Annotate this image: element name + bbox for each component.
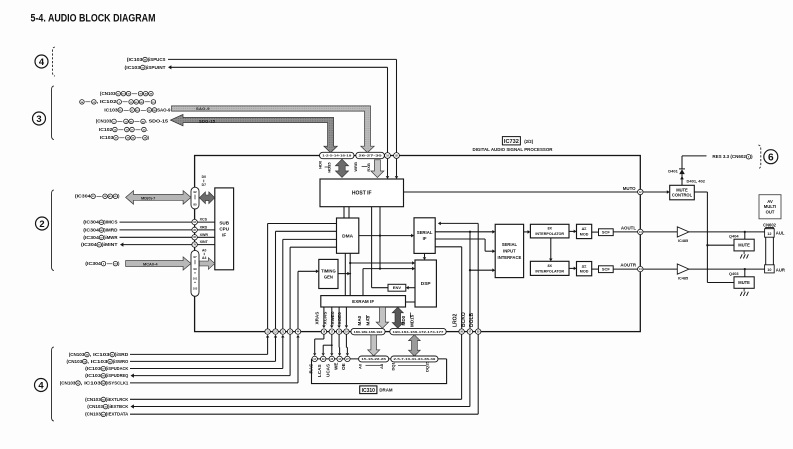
pin 190 (iSPUINT) [385, 153, 391, 159]
svg-text:2: 2 [39, 218, 44, 229]
wire DMA to EXRAM IF [345, 253, 350, 295]
label AOUTR [620, 263, 636, 268]
svg-text:)iEXTDATA: )iEXTDATA [106, 412, 128, 417]
svg-text:MOD: MOD [580, 232, 589, 236]
svg-text:CONTROL: CONTROL [672, 193, 693, 198]
block SUB CPU IF [215, 188, 234, 270]
svg-text:(2/2): (2/2) [524, 139, 534, 144]
pin AOUTL [638, 229, 643, 234]
bus label HD0-HD15 [318, 160, 332, 173]
svg-text:): ) [118, 194, 120, 199]
block SCF (L) [599, 229, 614, 236]
pin iSYSCLK1 (bottom edge) [295, 329, 300, 334]
svg-text:6: 6 [768, 152, 774, 163]
wire iEXTDATA [130, 334, 478, 414]
svg-text:RES 3.3 (CN602: RES 3.3 (CN602 [712, 154, 746, 159]
wire EXRAM IF to XOE0 pin [345, 307, 348, 328]
block ENV [388, 284, 406, 291]
bus arrow MD pill to DRAM data pill (double) [409, 335, 421, 356]
wire LRO2 net to SERIAL INPUT INTERFACE [469, 268, 495, 272]
block TIMING GEN [319, 259, 338, 288]
svg-text:8X: 8X [547, 264, 552, 268]
signal label iMCS [83, 220, 117, 225]
signal label iSYSCLK1 [60, 380, 129, 385]
svg-text:)iSPUDACK: )iSPUDACK [106, 366, 129, 371]
svg-text:XWR: XWR [200, 233, 209, 237]
wire SERIAL IF to DSP [423, 253, 426, 260]
svg-text:BCKO: BCKO [461, 312, 467, 327]
svg-text:(CN103: (CN103 [100, 91, 116, 96]
svg-text:DQ1: DQ1 [390, 362, 395, 371]
wire iMRD [120, 229, 192, 231]
svg-text:(CN103: (CN103 [66, 359, 82, 364]
svg-text:12: 12 [767, 232, 771, 236]
wire DMA to SERIAL IF [359, 234, 414, 238]
block EXRAM IF [321, 296, 406, 307]
svg-text:2-5-7-10-31-34-36-39: 2-5-7-10-31-34-36-39 [394, 357, 436, 361]
bus arrow MA pill to DRAM address pill [368, 335, 380, 356]
svg-text:EXRAM IF: EXRAM IF [352, 299, 374, 304]
signal labels SDO-15 source pins (CN103/IC102/IC103) [96, 119, 169, 140]
svg-text:MD0: MD0 [401, 315, 406, 325]
svg-text:IF: IF [423, 236, 427, 241]
svg-text:XINT: XINT [200, 240, 209, 244]
svg-text:)iSPUINT: )iSPUINT [145, 65, 166, 70]
svg-text:(CN103: (CN103 [87, 404, 103, 409]
label MUTO [623, 186, 636, 191]
svg-text:(IC304: (IC304 [83, 227, 99, 232]
wire iSWRO [130, 335, 277, 362]
svg-text:MCA0-4: MCA0-4 [143, 261, 158, 266]
svg-text:(IC304: (IC304 [85, 261, 101, 266]
svg-text:ΔΣ: ΔΣ [582, 264, 588, 268]
wire MOD R to SCF R [592, 268, 599, 270]
wire iSPUDACK riser to DMA [283, 239, 337, 329]
DRAM pill pins 15-16-22-26 (A bus) [359, 356, 389, 362]
svg-text:)iMRD: )iMRD [104, 227, 117, 232]
pill pins 183-189-188-192 (MA bus) [351, 328, 385, 334]
bus label D0-D7 [202, 175, 206, 187]
svg-text:GEN: GEN [324, 274, 333, 279]
pin iSWRO (bottom edge) [273, 329, 278, 334]
wire EXRAM IF to DSP [406, 301, 416, 303]
signal label iEXTLRCK [85, 397, 129, 402]
svg-text:OE: OE [341, 363, 346, 370]
pin 94 XCS [192, 219, 197, 224]
svg-text:(CN103: (CN103 [85, 412, 101, 417]
pin BCKO [467, 329, 472, 334]
svg-text:IF: IF [222, 233, 226, 238]
wire DMA net to DSP [349, 261, 415, 265]
svg-text:INTERPOLATOR: INTERPOLATOR [535, 269, 564, 273]
svg-text:85: 85 [193, 203, 197, 207]
pin iSPUDACK (bottom edge) [280, 329, 285, 334]
svg-text:101: 101 [193, 276, 198, 280]
bus arrow SAO-9 (to pill 26-27-30) [172, 106, 375, 153]
label IC732 (2/2) DIGITAL AUDIO SIGNAL PROCESSOR [473, 137, 554, 152]
wire iSYSCLK1 riser to TIMING GEN [298, 270, 319, 329]
wire iSYSCLK1 [130, 335, 300, 383]
bus label DQ1-DQ15 (rotated) [390, 361, 429, 372]
connector pin 10 AUR [765, 265, 785, 273]
wire LRO2 tap to SERIAL IF [435, 247, 462, 329]
signal label iMRD [83, 227, 117, 232]
signal label iSWRO [66, 359, 128, 364]
svg-text:UCAS: UCAS [326, 364, 331, 377]
svg-text:): ) [751, 154, 753, 159]
svg-text:(IC103: (IC103 [125, 65, 141, 70]
svg-text:OUT: OUT [766, 209, 775, 214]
pin 95 XRD [192, 227, 197, 232]
signal labels SAO-9 source pins (CN103/IC102/IC103) [80, 91, 171, 112]
svg-text:WRB: WRB [353, 162, 358, 172]
svg-text:MUTE: MUTE [738, 243, 750, 248]
svg-text:(CN103: (CN103 [60, 380, 76, 385]
block 8X INTERPOLATOR (L) [530, 224, 569, 238]
label AOUTL [621, 226, 636, 231]
svg-text:D0: D0 [202, 175, 206, 179]
svg-text:D401: D401 [668, 169, 678, 174]
svg-text:HOST IF: HOST IF [352, 191, 372, 197]
svg-text:D401, 402: D401, 402 [687, 179, 706, 184]
labels XRAS XCAS XWE0 XOE0 (rotated) [315, 311, 343, 324]
wire iMINT with left arrow [120, 242, 192, 246]
wire SERIAL IF to SERIAL INPUT INTERFACE (BCKO net) [435, 230, 495, 329]
svg-text:1-2-5-14-16-19: 1-2-5-14-16-19 [322, 154, 351, 158]
wire TIMING GEN clock out [338, 272, 351, 276]
svg-text:DOLB: DOLB [469, 312, 475, 327]
pin XCAS [329, 329, 334, 334]
wire iSRD riser to DMA [268, 224, 337, 329]
signal label iMINT [81, 242, 118, 247]
pill pins 97-99 101 103 (A0-A4 bus) [191, 250, 199, 296]
wire DOLB tap to SERIAL IF [438, 222, 478, 329]
svg-text:)iMCS: )iMCS [104, 220, 118, 225]
op-amp IC485 (L) [677, 227, 689, 243]
label Q404 [729, 233, 739, 238]
signal label iSPUDACK [85, 366, 129, 371]
svg-text:(IC304: (IC304 [81, 242, 97, 247]
signal label iSRD [69, 352, 129, 357]
bus label A0-A8 (rotated) [358, 363, 384, 369]
svg-text:SAO-9: SAO-9 [157, 107, 171, 112]
bus arrow SDO-15 (from pill 1-2-5-14-16-19) [171, 114, 338, 152]
pin AOUTR [638, 266, 643, 271]
wire HOST IF to DMA [344, 207, 349, 218]
svg-text:, IC103: , IC103 [90, 352, 111, 357]
svg-text:LRO2: LRO2 [453, 313, 459, 327]
signal label iEXTDATA [85, 412, 128, 417]
section marker 2 with brace [36, 190, 55, 271]
wire XCAS to DRAM LCAS/UCAS [322, 334, 334, 356]
svg-text:XCAS: XCAS [323, 312, 328, 325]
block DMA [337, 218, 359, 253]
svg-text:AUL: AUL [776, 231, 785, 236]
wire XRAS to DRAM RAS [313, 334, 324, 356]
svg-text:, IC103: , IC103 [87, 359, 108, 364]
wire SII to 8X INTERPOLATOR L [524, 230, 531, 234]
block HOST IF [320, 179, 404, 207]
ground (Q403) [740, 288, 748, 296]
label RES 3.3 (CN602 5) [712, 154, 753, 159]
wire EXRAM net to DSP [363, 267, 415, 296]
wire XWE0 to DRAM WE [338, 334, 341, 356]
svg-text:A4: A4 [202, 256, 206, 260]
wire HOST IF riser to serial nets [379, 207, 381, 269]
pin XOE0 [344, 329, 349, 334]
svg-text:XRD: XRD [200, 225, 208, 229]
svg-text:)iSYSCLK1: )iSYSCLK1 [106, 380, 129, 385]
svg-text:IC485: IC485 [678, 276, 688, 280]
wire EXRAM IF to XRAS pin [322, 307, 325, 328]
DRAM pill pins 2-5-7-10-31-34-36-39 (DQ bus) [391, 356, 438, 362]
svg-text:SDO-15: SDO-15 [199, 119, 216, 124]
wire amplifier L to CN602 pin 12 [689, 231, 765, 239]
svg-text:(IC304: (IC304 [83, 220, 99, 225]
wire HOST IF to ENV [372, 207, 388, 288]
wire iMWR [120, 236, 192, 238]
signal label iSPUCS (IC103 99) [127, 57, 166, 62]
wire EXRAM IF to XWE0 pin [337, 307, 340, 328]
block AV MULTI OUT [759, 195, 781, 219]
block delta-sigma MOD (R) [577, 262, 592, 276]
svg-text:ΔΣ: ΔΣ [582, 227, 588, 231]
svg-text:103: 103 [193, 286, 198, 290]
svg-text:SCF: SCF [602, 267, 611, 272]
signal label iEXTBCK [87, 404, 129, 409]
pin MUTO [638, 189, 643, 194]
svg-text:A8: A8 [379, 363, 384, 369]
svg-text:Q403: Q403 [729, 271, 739, 276]
wire iSPUCS pin to HOST IF [395, 159, 398, 179]
svg-text:IC310: IC310 [362, 388, 376, 394]
svg-text:IC732: IC732 [504, 139, 519, 145]
svg-text:183-189-188-192: 183-189-188-192 [354, 330, 383, 334]
svg-text:IC103: IC103 [100, 135, 114, 140]
svg-text:IC485: IC485 [678, 239, 688, 243]
block delta-sigma MOD (L) [577, 224, 592, 238]
DRAM pin 27 OE [345, 356, 350, 361]
pin 92 (iSPUCS) [394, 153, 400, 159]
svg-text:IC102: IC102 [99, 127, 113, 132]
svg-text:)iMINT: )iMINT [102, 242, 118, 247]
wire iSPUDACK [130, 335, 284, 369]
bus arrow EXRAM to MD pill (dark double) [392, 307, 403, 328]
bus label A0-A4 [202, 248, 206, 260]
labels RAS LCAS UCAS WE OE (rotated) [308, 363, 346, 377]
svg-text:)iMWR: )iMWR [104, 235, 118, 240]
wire iEXTLRCK [130, 334, 462, 399]
svg-text:4: 4 [39, 56, 45, 67]
svg-text:, IC103: , IC103 [81, 380, 102, 385]
connector CN602 [763, 222, 776, 272]
IC732 digital audio signal processor main box [195, 156, 641, 332]
ground (Q404) [740, 251, 748, 259]
bus label MA0-MA8 (rotated) [357, 315, 370, 326]
svg-text:190-164-166-172-174-177: 190-164-166-172-174-177 [393, 330, 444, 334]
signal label iMWR [83, 235, 118, 240]
svg-text:97: 97 [193, 255, 197, 259]
block SCF (R) [599, 266, 614, 273]
svg-text:WE: WE [333, 363, 338, 370]
pill pins 92-85 (D0-D7 bus) [191, 187, 199, 209]
svg-text:.: . [147, 127, 148, 132]
bus arrow 26-27-30 to HOST IF (light) [371, 160, 384, 178]
svg-text:(IC103: (IC103 [127, 57, 143, 62]
block MUTE CONTROL [670, 185, 695, 200]
wire 8X INTERPOLATOR L to MOD L [569, 230, 577, 233]
bus arrow HD0-HD15 double-headed (dark) [335, 159, 348, 177]
bus arrow EXRAM to MA pill [376, 307, 388, 328]
svg-text:(CN103: (CN103 [85, 397, 101, 402]
svg-text:IC103: IC103 [104, 107, 118, 112]
pin iSRD (bottom edge) [265, 329, 270, 334]
svg-text:92: 92 [193, 190, 197, 194]
wire iSPUCS to DASP pin [168, 59, 397, 152]
wire iMCS [120, 221, 192, 223]
block SERIAL IF [414, 218, 435, 254]
svg-text:DMA: DMA [342, 233, 353, 239]
svg-text:, IC102: , IC102 [96, 99, 117, 104]
svg-text:(IC304: (IC304 [75, 194, 91, 199]
section marker 4 (top) with dashed brace [35, 47, 55, 76]
bus label WRB-RXB [353, 162, 371, 172]
IC310 DRAM outer box [312, 359, 447, 384]
pill pins 1-2-5-14-16-19 (HD bus) [320, 152, 355, 158]
label IC310 DRAM [360, 386, 393, 394]
bus arrow A0-A4 (gray) [199, 258, 214, 270]
wire 8X INTERPOLATOR R to MOD R [569, 267, 577, 270]
svg-text:(CN103: (CN103 [69, 352, 85, 357]
wires pins to SUB CPU IF [197, 222, 215, 245]
wire iSRD [130, 335, 269, 355]
svg-text:SERIAL: SERIAL [502, 242, 518, 247]
label Q403 [729, 271, 739, 276]
svg-text:INTERFACE: INTERFACE [498, 255, 522, 260]
svg-text:A0: A0 [358, 363, 363, 369]
signal label MCA0-4 source pins (IC304) [85, 261, 120, 266]
svg-text:MUTE: MUTE [676, 187, 688, 192]
wire SERIAL IF data to SERIAL INPUT INTERFACE [435, 239, 495, 253]
svg-text:): ) [148, 135, 150, 140]
signal label iSPUDREQ [85, 373, 129, 378]
svg-text:MOD: MOD [580, 270, 589, 274]
svg-text:MUTE: MUTE [738, 280, 750, 285]
block 8X INTERPOLATOR (R) [530, 261, 569, 275]
wire AOUTR to amplifier [643, 268, 677, 270]
svg-text:DQ15: DQ15 [424, 361, 429, 372]
svg-text:)iEXTLRCK: )iEXTLRCK [106, 397, 129, 402]
pin XRAS [321, 329, 326, 334]
transistor Q403 MUTE block [734, 277, 754, 289]
svg-text:AOUTR: AOUTR [620, 263, 636, 268]
svg-text:MD(0)-7: MD(0)-7 [141, 195, 155, 200]
svg-text:XRAS: XRAS [315, 312, 320, 325]
DRAM pin 13 WE [337, 356, 342, 361]
section marker 3 with brace [33, 86, 55, 140]
svg-text:(IC103: (IC103 [85, 373, 101, 378]
svg-text:AUR: AUR [776, 267, 785, 272]
svg-text:ENV: ENV [393, 285, 402, 290]
bus arrow MCA0-4 (gray) [126, 257, 191, 270]
pill pins 190-164-166-172-174-177 (MD bus) [390, 328, 446, 334]
svg-text:XWE0: XWE0 [330, 311, 335, 324]
op-amp IC485 (R) [677, 264, 689, 280]
svg-text:MA0: MA0 [357, 315, 362, 325]
signal label iSPUINT (IC103 90) [125, 65, 166, 70]
transistor Q404 MUTE block [734, 239, 754, 251]
svg-text:D7: D7 [202, 183, 206, 187]
wire ENV to DSP [406, 286, 415, 290]
svg-text:DSP: DSP [421, 281, 432, 287]
svg-text:INPUT: INPUT [503, 248, 516, 253]
svg-text:15-16-22-26: 15-16-22-26 [361, 357, 386, 361]
signal label MD0-7 source pins (IC304) [75, 194, 120, 199]
svg-text:TIMING: TIMING [321, 269, 336, 274]
svg-text:XOE0: XOE0 [337, 312, 342, 325]
svg-text:(CN103: (CN103 [96, 119, 112, 124]
svg-text:8X: 8X [547, 227, 552, 231]
title: 5-4. AUDIO BLOCK DIAGRAM [31, 13, 156, 25]
pin iSPUDREQ (bottom edge) [287, 329, 292, 334]
bus arrow D0-D7 double-headed (dark) [199, 192, 214, 204]
wire iSWRO riser to DMA [276, 231, 337, 329]
bus label MD0-MD15 (rotated) [401, 313, 414, 328]
svg-text:DIGITAL AUDIO SIGNAL PROCESSOR: DIGITAL AUDIO SIGNAL PROCESSOR [473, 147, 554, 152]
svg-text:LCAS: LCAS [317, 364, 322, 377]
wire iEXTBCK with left arrow [131, 334, 470, 408]
svg-text:RAS: RAS [308, 364, 313, 374]
pin 79 XINT [192, 242, 197, 247]
svg-text:)iSPUCS: )iSPUCS [148, 57, 166, 62]
wire iSPUDREQ with left arrow [131, 334, 291, 377]
pill pins 26-27-30 [356, 152, 385, 158]
connector pin 12 AUL [765, 229, 785, 238]
wire HOST IF MUTO out [404, 191, 638, 193]
svg-text:): ) [118, 261, 120, 266]
svg-text:XCS: XCS [200, 218, 208, 222]
svg-text:CN602: CN602 [763, 222, 776, 227]
wire MOD L to SCF L [592, 231, 599, 233]
block SERIAL INPUT INTERFACE [495, 224, 523, 277]
svg-text:SUB: SUB [219, 220, 229, 225]
svg-text:26-27-30: 26-27-30 [359, 154, 383, 158]
svg-text:4: 4 [38, 379, 44, 390]
svg-text:A0: A0 [202, 248, 206, 252]
svg-text:MA8: MA8 [365, 315, 370, 325]
pin LRO2 [459, 329, 464, 334]
wire XOE0 to DRAM OE [346, 334, 349, 356]
svg-text:99: 99 [193, 267, 197, 271]
svg-text:10: 10 [767, 268, 771, 272]
wire MUTO pin to MUTE CONTROL [643, 190, 670, 194]
wire interpolator L to R [549, 238, 552, 261]
pin XWE0 [336, 329, 341, 334]
DRAM pin 28 UCAS [329, 356, 334, 361]
svg-text:RXB: RXB [366, 163, 371, 172]
block DSP [415, 260, 436, 307]
wire AOUTL to amplifier [643, 231, 677, 233]
labels XCS XRD XWR XINT [200, 218, 209, 245]
pin DOLB [476, 329, 481, 334]
svg-text:. SDO-15: . SDO-15 [146, 119, 169, 124]
svg-text:INTERPOLATOR: INTERPOLATOR [535, 232, 564, 236]
svg-text:AOUTL: AOUTL [621, 226, 636, 231]
wire iSPUINT pin to HOST IF [386, 159, 389, 179]
svg-text:)iEXTBCK: )iEXTBCK [108, 404, 129, 409]
svg-text:CPU: CPU [219, 227, 229, 232]
svg-text:)iSRD: )iSRD [115, 352, 128, 357]
